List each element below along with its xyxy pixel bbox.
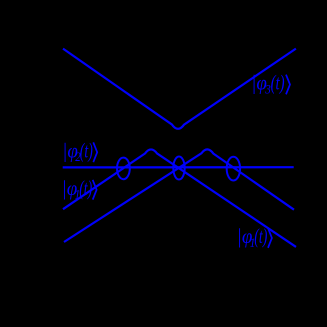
svg-text:(t): (t) [80, 139, 93, 162]
avoided crossing ellipse 3 [227, 157, 240, 181]
avoided crossing ellipse 2 (center) [173, 157, 184, 180]
avoided crossing ellipse 1 [117, 158, 130, 180]
svg-text:(t): (t) [254, 225, 267, 248]
middle horizontal curve |phi2(t)> [63, 166, 294, 168]
adiabatic curve B: rises through center, peak, falls through crossing 3 to right [64, 149, 294, 242]
upper adiabatic curve |phi3(t)> : V shape [63, 49, 296, 129]
svg-text:(t): (t) [79, 177, 92, 200]
label |phi2(t)> [62, 139, 97, 164]
adiabatic curve A: rises through crossing 1, peak, falls through center to bottom right [63, 149, 296, 246]
label |phi1(t)> left [62, 177, 97, 202]
label |phi3(t)> top right [251, 72, 290, 97]
svg-text:(t): (t) [271, 72, 285, 95]
label |phi1(t)> bottom right [237, 225, 272, 250]
